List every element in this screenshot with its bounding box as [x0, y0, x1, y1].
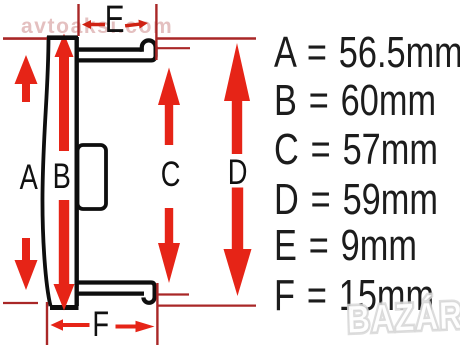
cap inner wall [74, 37, 78, 306]
arrow E left [82, 20, 105, 29]
arrow B down [54, 200, 75, 311]
dimension text B [274, 79, 436, 123]
dimension text E [274, 224, 417, 268]
arrow C down [158, 208, 180, 283]
tick E right [155, 4, 157, 60]
arrow F right [116, 321, 155, 333]
dimension text C [274, 128, 438, 172]
arrow E right [125, 19, 149, 31]
top hook curl [142, 40, 156, 60]
cap top rim [47, 35, 78, 40]
label D [228, 155, 248, 190]
ref line C top [156, 47, 190, 49]
label A [20, 160, 38, 195]
arrow A up [15, 55, 38, 102]
dimension text D [274, 178, 438, 222]
cap bottom rim [50, 305, 79, 310]
tick F left [46, 302, 48, 345]
label C [161, 157, 181, 192]
label B [53, 159, 71, 194]
clip tab bump [78, 145, 107, 209]
watermark BAZAR logo [346, 294, 460, 343]
ref line A top [3, 37, 47, 40]
ref line D top [157, 37, 257, 39]
bottom skirt upper line [77, 283, 155, 303]
label E [105, 1, 125, 39]
arrow F left [51, 319, 90, 331]
top flange upper line [77, 47, 142, 51]
dimension text A [274, 31, 460, 75]
arrow C up [158, 68, 180, 146]
tick E left [77, 4, 79, 36]
ref line D bottom [157, 305, 256, 307]
watermark avtoaksi.com [21, 15, 173, 39]
arrow B up [55, 34, 74, 152]
tick F right [156, 283, 158, 345]
label F [92, 307, 109, 342]
arrow A down [15, 238, 38, 290]
top flange lower line [77, 58, 152, 62]
arrow D up [224, 43, 250, 154]
ref line C bottom [157, 293, 189, 295]
ref line A bottom [3, 302, 38, 304]
bottom skirt lower line [77, 292, 144, 296]
dimension text F [274, 274, 434, 318]
arrow D down [224, 188, 252, 297]
cap dome outer edge [42, 37, 50, 307]
